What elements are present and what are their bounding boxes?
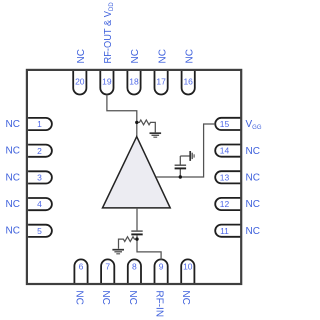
pin 17	[155, 70, 168, 94]
svg-text:4: 4	[37, 199, 42, 209]
svg-text:RF-IN: RF-IN	[154, 290, 165, 317]
svg-text:12: 12	[220, 199, 230, 209]
pin 4	[28, 198, 52, 210]
svg-text:RF-OUT & VDD: RF-OUT & VDD	[103, 2, 115, 64]
pin number 7	[105, 261, 110, 271]
label NC pin 17	[157, 49, 168, 63]
svg-text:NC: NC	[6, 172, 20, 183]
pin 12	[215, 198, 241, 210]
svg-text:NC: NC	[6, 226, 20, 237]
label NC pin 16	[184, 49, 195, 63]
ground (top, below R1)	[150, 133, 162, 137]
pin number 3	[37, 173, 42, 183]
label NC pin 8	[127, 290, 138, 304]
pin number 1	[37, 119, 42, 129]
pin 20	[73, 70, 86, 94]
svg-text:NC: NC	[157, 49, 168, 63]
svg-text:NC: NC	[246, 173, 260, 184]
package outline	[27, 70, 241, 284]
pin number 2	[37, 146, 42, 156]
label NC pin 10	[180, 290, 191, 304]
label NC pin 12	[246, 199, 260, 210]
pin number 8	[132, 261, 137, 271]
pin 19	[100, 70, 113, 94]
svg-text:17: 17	[156, 76, 166, 86]
wire amplifier bottom	[136, 208, 138, 231]
pin 8	[128, 259, 141, 283]
label NC pin 1	[6, 119, 20, 130]
wire C1 top to side ground	[180, 155, 190, 157]
pin 9	[155, 259, 168, 283]
label NC pin 2	[6, 146, 20, 157]
wire pin19 to amplifier input	[107, 95, 137, 137]
pin number 15	[220, 119, 230, 129]
label NC pin 6	[73, 290, 84, 304]
svg-text:VGG: VGG	[246, 119, 262, 131]
svg-text:7: 7	[105, 261, 110, 271]
svg-text:NC: NC	[246, 226, 260, 237]
svg-text:NC: NC	[100, 290, 111, 304]
svg-text:2: 2	[37, 146, 42, 156]
pin number 6	[79, 261, 84, 271]
pin number 13	[220, 172, 230, 182]
pin 1	[28, 118, 52, 130]
svg-text:NC: NC	[6, 146, 20, 157]
ground (bottom, below R2)	[112, 250, 124, 254]
pin number 16	[183, 76, 193, 86]
pin number 5	[37, 226, 42, 236]
pin 16	[182, 70, 195, 94]
pin 13	[215, 171, 241, 183]
label NC pin 14	[246, 146, 260, 157]
pin 14	[215, 145, 241, 157]
svg-text:3: 3	[37, 173, 42, 183]
svg-text:NC: NC	[130, 49, 141, 63]
pin number 12	[220, 199, 230, 209]
pin 18	[127, 70, 140, 94]
svg-text:13: 13	[220, 172, 230, 182]
pin number 11	[220, 226, 229, 236]
pin number 19	[102, 76, 112, 86]
svg-text:NC: NC	[127, 290, 138, 304]
svg-text:19: 19	[102, 76, 112, 86]
label NC pin 7	[100, 290, 111, 304]
capacitor C1 (output decoupling)	[175, 156, 187, 177]
node B junction dot (C1 tap)	[179, 175, 182, 178]
pin 11	[215, 225, 241, 237]
pin 2	[28, 145, 52, 157]
label NC pin 3	[6, 172, 20, 183]
svg-text:5: 5	[37, 226, 42, 236]
label NC pin 18	[130, 49, 141, 63]
wire amplifier output to pin 15	[156, 124, 215, 177]
pin 5	[28, 225, 52, 237]
svg-text:16: 16	[183, 76, 193, 86]
label RF-OUT & VDD pin 19	[103, 2, 115, 64]
svg-text:NC: NC	[76, 49, 87, 63]
pin 10	[181, 259, 194, 283]
label NC pin 20	[76, 49, 87, 63]
label NC pin 5	[6, 226, 20, 237]
pin number 9	[159, 261, 164, 271]
svg-text:9: 9	[159, 261, 164, 271]
svg-text:20: 20	[75, 76, 85, 86]
svg-text:18: 18	[129, 76, 139, 86]
svg-text:NC: NC	[73, 290, 84, 304]
svg-text:NC: NC	[180, 290, 191, 304]
node C junction dot (R2 tap)	[135, 237, 138, 240]
pin 15	[215, 118, 241, 130]
pin number 14	[220, 146, 230, 156]
pin number 18	[129, 76, 139, 86]
svg-text:8: 8	[132, 261, 137, 271]
wire C2 to pin 9	[137, 235, 161, 260]
label RF-IN pin 9	[154, 290, 165, 317]
resistor R2 (bottom, to ground)	[119, 237, 138, 249]
label NC pin 13	[246, 173, 260, 184]
svg-text:6: 6	[79, 261, 84, 271]
pin 3	[28, 171, 52, 183]
label NC pin 4	[6, 199, 20, 210]
pin number 20	[75, 76, 85, 86]
svg-text:NC: NC	[6, 119, 20, 130]
svg-text:15: 15	[220, 119, 230, 129]
pin 6	[74, 259, 87, 283]
svg-text:11: 11	[220, 226, 229, 236]
ground (right side, rotated)	[190, 151, 194, 161]
svg-text:10: 10	[183, 261, 193, 271]
svg-text:NC: NC	[246, 199, 260, 210]
node A junction dot (R1 tap)	[135, 121, 138, 124]
svg-text:NC: NC	[246, 146, 260, 157]
svg-text:NC: NC	[184, 49, 195, 63]
pin 7	[101, 259, 114, 283]
capacitor C2 (input series)	[131, 231, 142, 234]
pin number 4	[37, 199, 42, 209]
pin number 10	[183, 261, 193, 271]
svg-text:14: 14	[220, 146, 230, 156]
label VGG pin 15	[246, 119, 262, 131]
svg-text:1: 1	[37, 119, 42, 129]
label NC pin 11	[246, 226, 260, 237]
svg-text:NC: NC	[6, 199, 20, 210]
op-amp U1 (amplifier triangle)	[103, 137, 171, 208]
resistor R1 (bias, top)	[137, 120, 156, 132]
pin number 17	[156, 76, 166, 86]
